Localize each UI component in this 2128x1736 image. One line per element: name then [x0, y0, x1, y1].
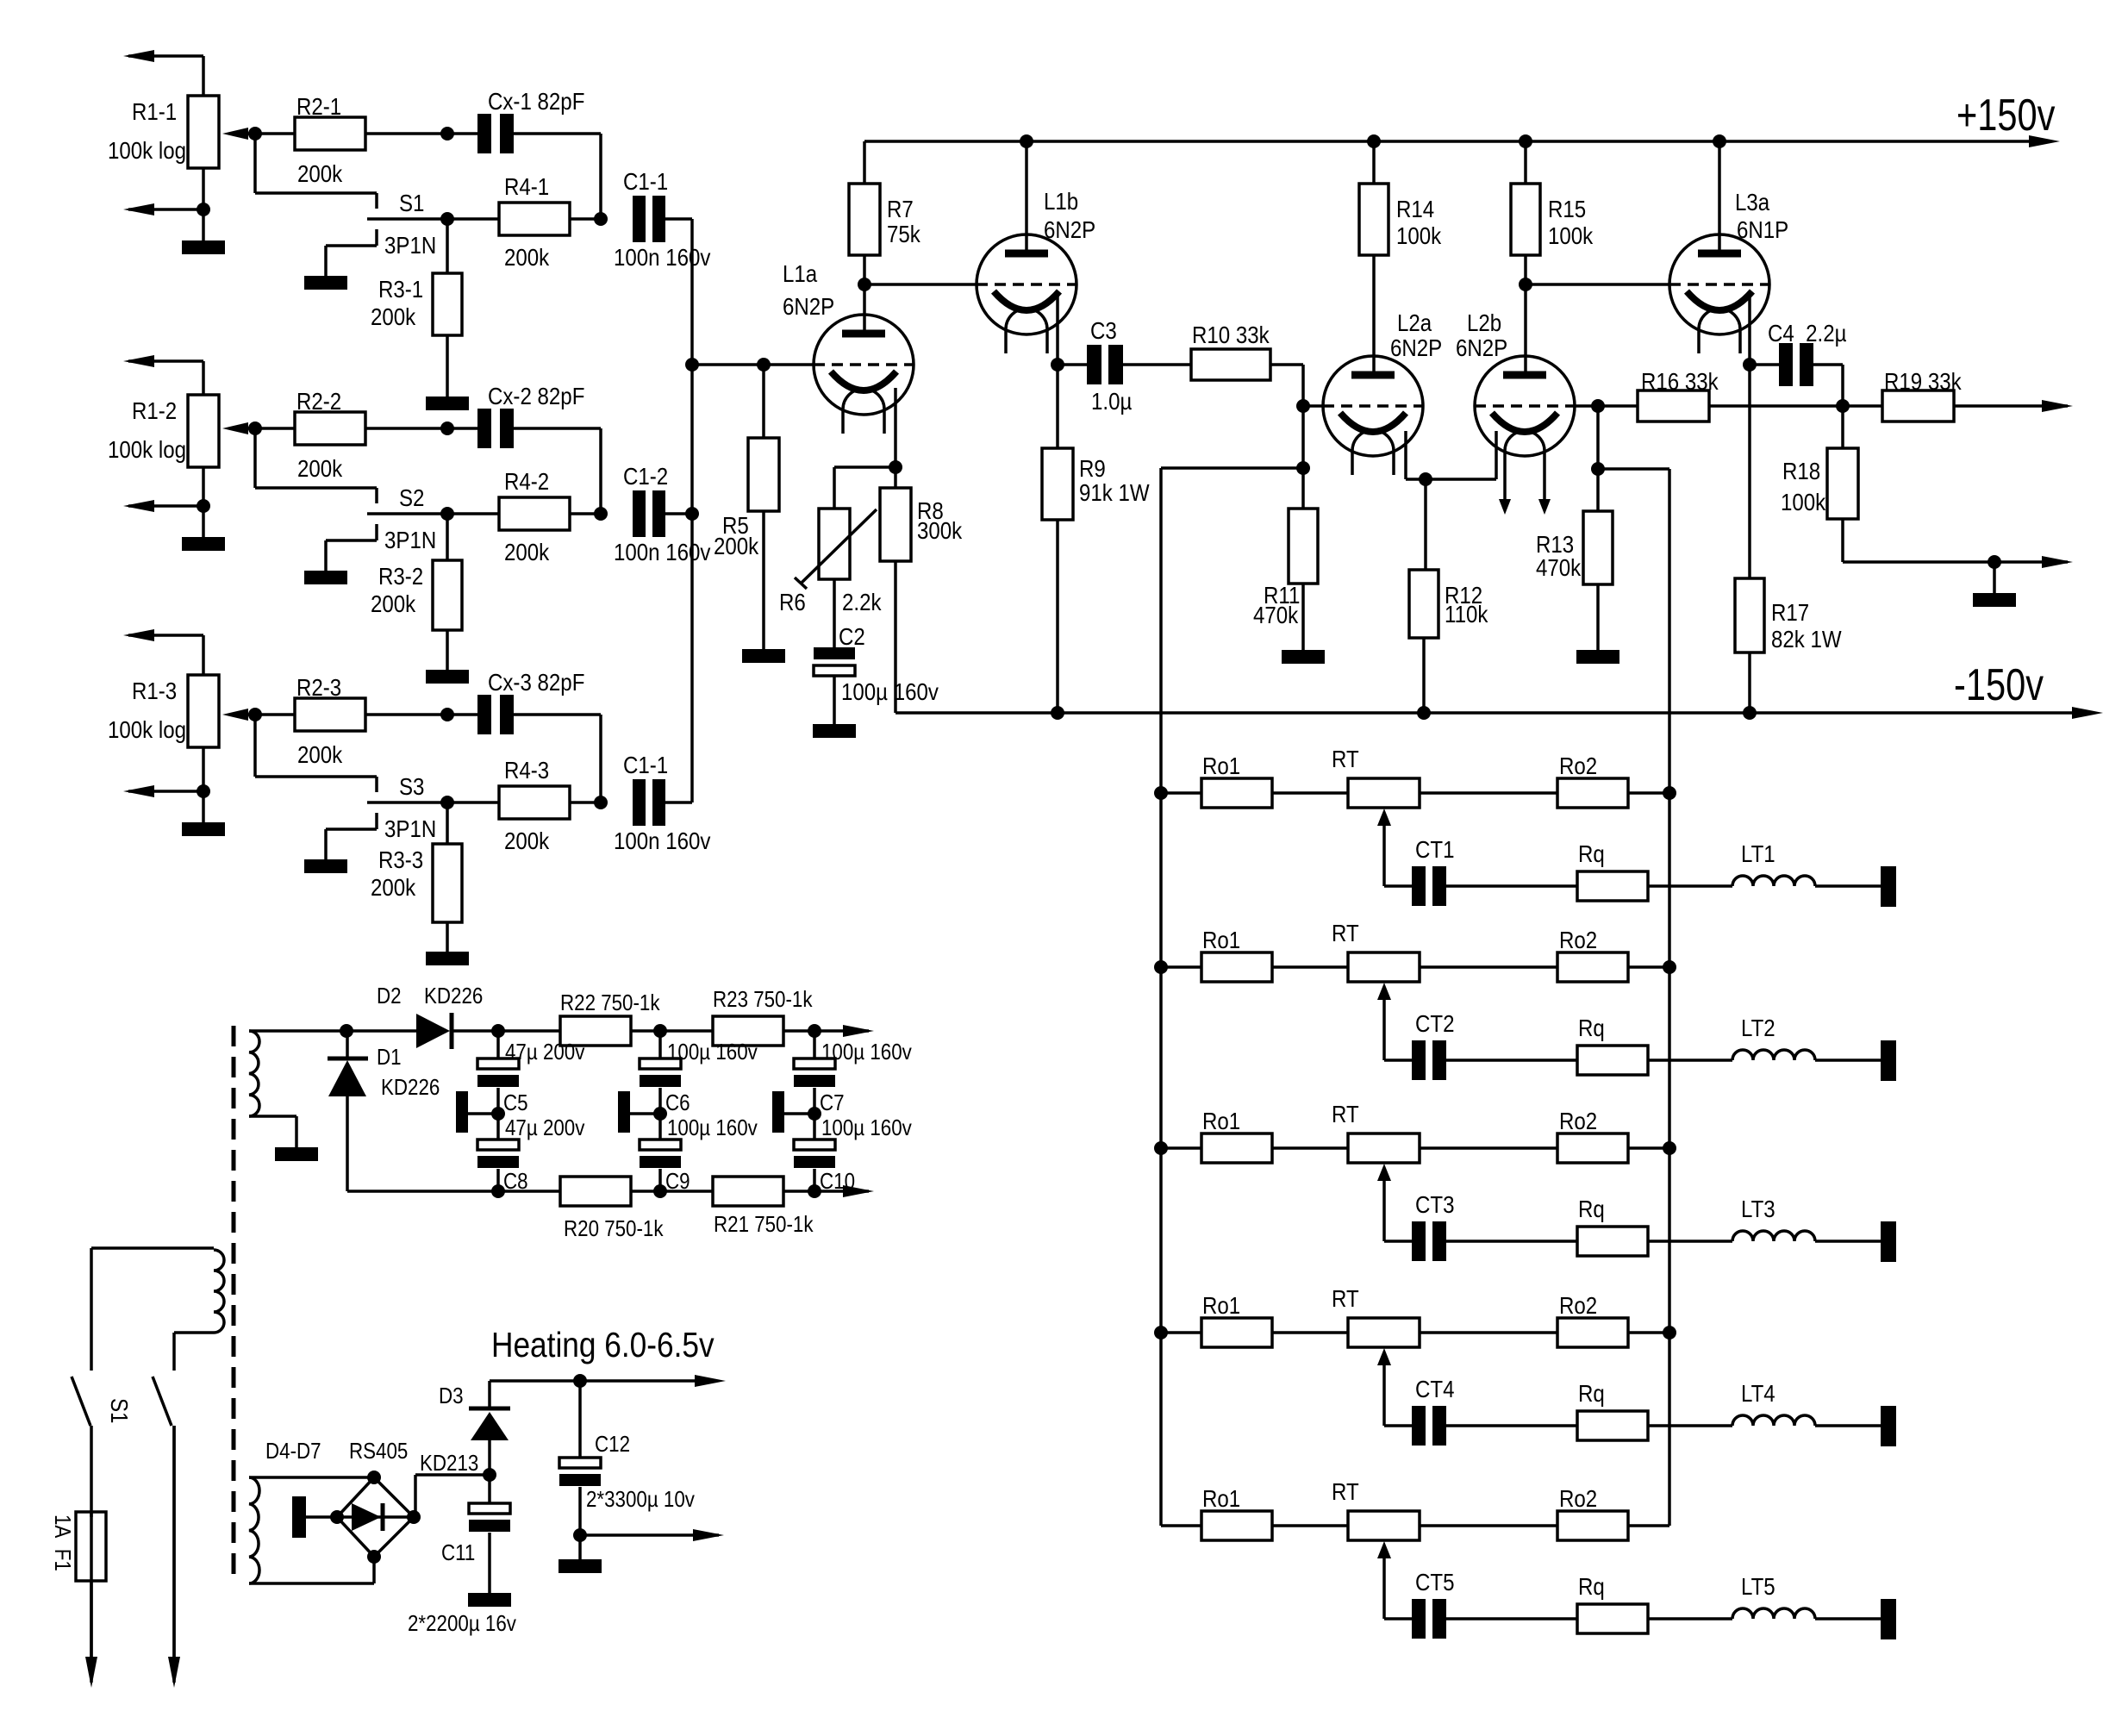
wire L2a cathode lead — [1406, 431, 1426, 479]
node mid C7/C10 — [808, 1107, 821, 1121]
wire C10 to rail — [813, 1169, 816, 1191]
resistor Ro1 row5 — [1201, 1484, 1272, 1540]
svg-text:L2b: L2b — [1467, 309, 1501, 336]
wire bridge to D3 — [414, 1451, 490, 1517]
wire C6 to mid — [658, 1088, 662, 1140]
svg-text:R1-3: R1-3 — [132, 677, 177, 704]
svg-text:100k log: 100k log — [108, 136, 186, 164]
svg-text:S2: S2 — [399, 484, 424, 511]
node bus left row4 — [1154, 1326, 1168, 1339]
triode L1a — [783, 259, 914, 434]
node R12 rail — [1417, 706, 1431, 720]
node mid C5/C8 — [491, 1107, 505, 1121]
wire Ro1 to RT row2 — [1272, 965, 1348, 969]
svg-text:CT3: CT3 — [1415, 1190, 1454, 1218]
svg-text:110k: 110k — [1445, 600, 1488, 628]
svg-text:R20 750-1k: R20 750-1k — [564, 1216, 664, 1241]
wire LT5 to terminal — [1815, 1617, 1881, 1620]
wire node to Cx-2 — [447, 427, 477, 430]
resistor R12 — [1409, 479, 1488, 638]
capacitor Cx-1 — [477, 87, 584, 153]
capacitor C5 — [477, 1040, 585, 1115]
wiper arrow RT row5 — [1377, 1541, 1391, 1619]
wire wiper to CT2 — [1384, 1058, 1412, 1062]
triode L3a — [1669, 188, 1788, 353]
svg-text:CT5: CT5 — [1415, 1568, 1454, 1595]
svg-text:L1a: L1a — [783, 259, 818, 287]
inductor LT1 — [1732, 840, 1815, 886]
ground R3-2 — [426, 670, 469, 684]
wire Ro1 to RT row5 — [1272, 1524, 1348, 1527]
node L3a anode rail — [1713, 134, 1726, 148]
wire to C3 — [1058, 363, 1088, 366]
wire R21 to node — [783, 1190, 843, 1193]
node L2b anode — [1519, 278, 1532, 291]
svg-text:Ro1: Ro1 — [1202, 1291, 1240, 1319]
svg-text:LT3: LT3 — [1741, 1195, 1775, 1222]
svg-text:Ro1: Ro1 — [1202, 752, 1240, 779]
tone bus left — [1159, 468, 1163, 1526]
wire wiper to CT4 — [1384, 1424, 1412, 1427]
svg-text:CT4: CT4 — [1415, 1375, 1454, 1402]
ground R11 — [1282, 650, 1325, 664]
wire RT to Ro2 row2 — [1420, 965, 1557, 969]
svg-text:RT: RT — [1332, 1477, 1359, 1505]
wiper arrow RT row4 — [1377, 1348, 1391, 1426]
node C10 bottom — [808, 1184, 821, 1198]
svg-text:200k: 200k — [371, 303, 416, 330]
wire switch feed ch2 — [255, 428, 377, 488]
svg-text:2*3300µ 10v: 2*3300µ 10v — [586, 1487, 696, 1512]
resistor Rq row2 — [1577, 1014, 1648, 1075]
ground pot ch3 — [182, 791, 225, 836]
svg-text:1.0µ: 1.0µ — [1091, 387, 1132, 415]
node L2a grid — [1296, 399, 1310, 413]
node D1 anode — [340, 1024, 353, 1038]
terminal LT1 — [1881, 866, 1896, 907]
svg-text:1A F1: 1A F1 — [50, 1514, 75, 1571]
node bus ch2 — [685, 507, 699, 521]
heater return arrow — [580, 1529, 724, 1541]
wire wiper to CT3 — [1384, 1240, 1412, 1243]
svg-text:3P1N: 3P1N — [384, 815, 436, 842]
wire Ro1 to RT row1 — [1272, 791, 1348, 795]
svg-text:200k: 200k — [504, 827, 550, 854]
svg-text:75k: 75k — [887, 220, 921, 247]
tone bus right — [1668, 469, 1671, 1526]
svg-text:200k: 200k — [504, 538, 550, 565]
svg-text:LT4: LT4 — [1741, 1379, 1775, 1407]
resistor R11 — [1253, 509, 1318, 628]
svg-text:C11: C11 — [441, 1540, 475, 1565]
potentiometer R1-2 — [108, 395, 255, 467]
wire L1a cathode lead — [894, 388, 897, 467]
svg-text:100k log: 100k log — [108, 435, 186, 463]
resistor R4-2 — [499, 467, 570, 565]
ground pot ch2 — [182, 506, 225, 551]
svg-text:100n 160v: 100n 160v — [614, 538, 710, 565]
svg-text:R17: R17 — [1771, 598, 1809, 626]
input arrow top ch3 — [123, 629, 203, 641]
inductor LT4 — [1732, 1379, 1815, 1426]
wire pot R1-1 bottom — [202, 168, 205, 211]
wire R5 to ground — [762, 511, 765, 649]
svg-text:100n 160v: 100n 160v — [614, 243, 710, 271]
node A ch2 — [440, 422, 454, 435]
transformer HV secondary — [249, 1031, 346, 1116]
svg-text:2.2k: 2.2k — [842, 588, 882, 615]
node C3 junction — [1051, 358, 1064, 372]
potentiometer RT row4 — [1332, 1284, 1420, 1347]
wire Cx-2 to C1 node — [514, 428, 601, 514]
heating rail — [490, 1375, 726, 1387]
wire R20 to node — [631, 1190, 713, 1193]
svg-text:Ro1: Ro1 — [1202, 926, 1240, 953]
resistor R6 trimmer — [779, 509, 882, 615]
node output2 ground — [1988, 555, 2001, 569]
svg-text:C12: C12 — [595, 1432, 630, 1457]
capacitor C6 — [640, 1040, 758, 1115]
bridge rectifier D4-D7 RS405 — [265, 1439, 421, 1564]
node R15 rail — [1519, 134, 1532, 148]
input arrow bottom ch3 — [123, 785, 203, 797]
terminal LT2 — [1881, 1040, 1896, 1081]
svg-text:100µ 160v: 100µ 160v — [821, 1115, 913, 1140]
node L1b anode rail — [1020, 134, 1033, 148]
node bus grid feed — [685, 358, 699, 372]
node bus left row1 — [1154, 786, 1168, 800]
wire R22 to node — [631, 1029, 713, 1033]
svg-text:R3-1: R3-1 — [378, 275, 423, 303]
wire Ro2 to bus row2 — [1628, 965, 1669, 969]
svg-text:Ro2: Ro2 — [1559, 1484, 1597, 1512]
wiper arrow RT row1 — [1377, 809, 1391, 886]
svg-text:CT1: CT1 — [1415, 835, 1454, 863]
node wiper ch2 — [248, 422, 262, 435]
resistor R4-3 — [499, 756, 570, 854]
wire Ro1 to RT row4 — [1272, 1331, 1348, 1334]
wire C8 to rail — [496, 1169, 500, 1191]
svg-text:L1b: L1b — [1044, 187, 1078, 215]
wire C1 to bus ch3 — [665, 801, 692, 804]
node C ch3 — [594, 796, 608, 809]
resistor Rq row4 — [1577, 1379, 1648, 1440]
svg-text:470k: 470k — [1253, 601, 1299, 628]
node mid C6/C9 — [653, 1107, 667, 1121]
wire L3a anode to +150v — [1718, 141, 1721, 253]
wire C5 to mid — [496, 1088, 500, 1140]
wire C1 output bus — [690, 219, 694, 802]
svg-text:Ro2: Ro2 — [1559, 1291, 1597, 1319]
potentiometer RT row1 — [1332, 745, 1420, 808]
heating label — [491, 1326, 715, 1365]
svg-text:R19 33k: R19 33k — [1884, 367, 1963, 395]
wire to right bus — [1598, 467, 1669, 471]
wire node to L3a grid — [1526, 283, 1669, 286]
wire CT3 to Rq — [1446, 1240, 1577, 1243]
svg-text:R2-1: R2-1 — [296, 92, 341, 120]
wire R9 to -150v rail — [1056, 520, 1059, 713]
capacitor CT5 — [1412, 1568, 1454, 1639]
wire L2b anode lead — [1524, 284, 1527, 375]
resistor R23 — [713, 987, 813, 1046]
ground R5 — [742, 649, 785, 663]
wire pot R1-1 top — [202, 56, 205, 96]
wire LT3 to terminal — [1815, 1240, 1881, 1243]
wire to left bus — [1161, 466, 1303, 470]
wire bus to Ro1 row4 — [1161, 1331, 1201, 1334]
svg-text:R1-1: R1-1 — [132, 97, 177, 125]
wire rail to C5 — [496, 1031, 500, 1058]
svg-text:200k: 200k — [504, 243, 550, 271]
wire pot R1-3 bottom — [202, 747, 205, 793]
svg-text:200k: 200k — [297, 454, 343, 482]
terminal bar bridge — [292, 1496, 337, 1538]
wire CT2 to Rq — [1446, 1058, 1577, 1062]
svg-text:91k 1W: 91k 1W — [1079, 478, 1150, 506]
resistor R15 — [1511, 141, 1594, 255]
terminal LT4 — [1881, 1406, 1896, 1446]
svg-text:100µ 160v: 100µ 160v — [821, 1040, 913, 1065]
svg-text:C1-2: C1-2 — [623, 462, 668, 490]
capacitor C8 — [477, 1115, 585, 1194]
wire Rq to LT3 — [1648, 1240, 1732, 1243]
svg-text:R16 33k: R16 33k — [1641, 367, 1719, 395]
wire to C4 — [1750, 363, 1779, 366]
node bus right row3 — [1663, 1141, 1676, 1155]
wire RT to Ro2 row3 — [1420, 1146, 1557, 1150]
inductor LT2 — [1732, 1014, 1815, 1060]
wire Rq to LT5 — [1648, 1617, 1732, 1620]
svg-text:Ro1: Ro1 — [1202, 1107, 1240, 1134]
svg-text:3P1N: 3P1N — [384, 526, 436, 553]
wire grid node down — [1596, 406, 1600, 511]
PSU + output arrow — [843, 1025, 874, 1037]
terminal bar C6/C9 — [618, 1091, 660, 1133]
wire Rq to LT2 — [1648, 1058, 1732, 1062]
svg-text:200k: 200k — [714, 532, 759, 559]
resistor R13 — [1536, 511, 1613, 584]
wire R18 to output2 — [1843, 519, 1994, 562]
node R9 rail — [1051, 706, 1064, 720]
svg-text:C8: C8 — [503, 1169, 528, 1194]
node B ch1 — [440, 212, 454, 226]
input arrow bottom ch2 — [123, 500, 203, 512]
wire bus to Ro1 row1 — [1161, 791, 1201, 795]
wire RT to Ro2 row4 — [1420, 1331, 1557, 1334]
svg-text:R4-1: R4-1 — [504, 172, 549, 200]
resistor Ro2 row3 — [1557, 1107, 1628, 1163]
svg-text:Ro2: Ro2 — [1559, 1107, 1597, 1134]
svg-text:KD226: KD226 — [381, 1075, 440, 1100]
svg-text:C1-1: C1-1 — [623, 167, 668, 195]
svg-text:Ro2: Ro2 — [1559, 926, 1597, 953]
svg-text:47µ 200v: 47µ 200v — [505, 1040, 585, 1065]
svg-text:+150v: +150v — [1956, 90, 2056, 141]
node B ch3 — [440, 796, 454, 809]
svg-text:R3-3: R3-3 — [378, 846, 423, 873]
input arrow top ch2 — [123, 355, 203, 367]
resistor R16 — [1598, 367, 1719, 422]
capacitor C4 — [1768, 319, 1847, 386]
capacitor Cx-3 — [477, 668, 584, 734]
wire C3 to R10 — [1122, 363, 1191, 366]
resistor Ro1 row2 — [1201, 926, 1272, 982]
wire R23 to node — [783, 1029, 843, 1033]
ground R3-1 — [426, 397, 469, 410]
switch S1 pole2 wire top — [172, 1333, 176, 1371]
diode D1 KD226 — [328, 1031, 440, 1191]
node C12 top — [573, 1374, 587, 1388]
ground C11 — [468, 1593, 511, 1607]
wire LT1 to terminal — [1815, 884, 1881, 888]
wire R7 to node — [863, 255, 866, 284]
wire cathode to R6 — [834, 467, 896, 509]
resistor R20 — [560, 1177, 664, 1241]
wire C12 down — [578, 1487, 582, 1559]
output arrow R19 — [1954, 400, 2073, 412]
wire Rq to LT1 — [1648, 884, 1732, 888]
svg-text:C1-1: C1-1 — [623, 751, 668, 778]
svg-text:LT5: LT5 — [1741, 1572, 1775, 1600]
wire node to R4-2 — [447, 512, 499, 515]
wire Ro2 to bus row4 — [1628, 1331, 1669, 1334]
wire C11 to ground — [488, 1533, 491, 1593]
wire R13 to ground — [1596, 584, 1600, 650]
ground output2 — [1973, 562, 2016, 607]
svg-text:100k log: 100k log — [108, 715, 186, 743]
node heater return — [573, 1528, 587, 1542]
wire cathode link — [1426, 478, 1496, 481]
svg-text:RT: RT — [1332, 745, 1359, 772]
-150v rail — [896, 659, 2103, 719]
node wiper ch1 — [248, 127, 262, 141]
svg-text:C10: C10 — [820, 1169, 855, 1194]
svg-text:R23 750-1k: R23 750-1k — [713, 987, 813, 1012]
node C5 top — [491, 1024, 505, 1038]
wire node B down ch2 — [446, 514, 449, 560]
capacitor C7 — [794, 1040, 913, 1115]
node C8 bottom — [491, 1184, 505, 1198]
svg-text:Cx-2 82pF: Cx-2 82pF — [488, 382, 584, 409]
node bus right row2 — [1663, 960, 1676, 974]
svg-text:100µ 160v: 100µ 160v — [667, 1040, 758, 1065]
ground R13 — [1576, 650, 1619, 664]
capacitor C11 — [441, 1475, 510, 1565]
wire node to R4-3 — [447, 801, 499, 804]
wire Rq to LT4 — [1648, 1424, 1732, 1427]
svg-text:200k: 200k — [371, 873, 416, 901]
resistor Ro2 row4 — [1557, 1291, 1628, 1347]
svg-text:Rq: Rq — [1578, 1379, 1605, 1407]
node feedback right — [1591, 462, 1605, 476]
node C9 bottom — [653, 1184, 667, 1198]
transformer primary — [91, 1248, 224, 1333]
inductor LT3 — [1732, 1195, 1815, 1241]
svg-text:Cx-1 82pF: Cx-1 82pF — [488, 87, 584, 115]
wire R4-2 to C1 node — [570, 512, 601, 515]
capacitor C3 — [1087, 316, 1132, 415]
wire wiper to CT1 — [1384, 884, 1412, 888]
resistor Ro1 row3 — [1201, 1107, 1272, 1163]
wire node to L1b grid — [864, 283, 977, 286]
wire bus to Ro1 row3 — [1161, 1146, 1201, 1150]
ground pot ch1 — [182, 209, 225, 254]
svg-text:KD213: KD213 — [420, 1451, 478, 1476]
svg-text:Rq: Rq — [1578, 1572, 1605, 1600]
resistor Rq row1 — [1577, 840, 1648, 901]
node L2b grid — [1591, 399, 1605, 413]
wire bus to L1a grid — [692, 363, 814, 366]
wiper arrow RT row3 — [1377, 1164, 1391, 1241]
potentiometer RT row2 — [1332, 919, 1420, 982]
resistor R3-2 — [371, 560, 462, 630]
node R17 rail — [1743, 706, 1757, 720]
wire grid to L2a — [1303, 404, 1323, 408]
wire bus to Ro1 row2 — [1161, 965, 1201, 969]
transformer heater secondary — [249, 1477, 374, 1583]
resistor R2-1 — [295, 92, 365, 187]
wire C2 to ground — [833, 675, 836, 724]
terminal bar C5/C8 — [456, 1091, 498, 1133]
node A ch3 — [440, 708, 454, 721]
resistor R10 — [1191, 321, 1270, 380]
node C ch1 — [594, 212, 608, 226]
mains arrow pole2 — [168, 1426, 180, 1688]
wire C4 to output node — [1813, 365, 1843, 406]
wire node to Cx-3 — [447, 713, 477, 716]
triode L2b — [1456, 309, 1575, 515]
svg-text:200k: 200k — [297, 740, 343, 768]
wire C1 to bus ch2 — [665, 512, 692, 515]
svg-text:200k: 200k — [297, 159, 343, 187]
input arrow bottom ch1 — [123, 203, 203, 215]
fuse F1 1A — [50, 1512, 106, 1581]
capacitor CT3 — [1412, 1190, 1454, 1261]
svg-text:6N2P: 6N2P — [1456, 334, 1507, 361]
wire R17 to -150v rail — [1748, 653, 1751, 713]
resistor R3-1 — [371, 273, 462, 335]
resistor R21 — [713, 1177, 814, 1237]
capacitor C1-1 ch1 — [614, 167, 710, 271]
capacitor C2 — [814, 622, 939, 705]
wire HV winding bottom — [249, 1116, 296, 1147]
+150v rail — [864, 90, 2060, 147]
svg-text:R3-2: R3-2 — [378, 562, 423, 590]
PSU - output arrow — [843, 1185, 874, 1197]
wire Ro1 to RT row3 — [1272, 1146, 1348, 1150]
svg-text:S1: S1 — [106, 1398, 134, 1423]
node R14 rail — [1367, 134, 1381, 148]
svg-text:C5: C5 — [503, 1090, 528, 1115]
wire L1b anode to +150v — [1025, 141, 1028, 253]
svg-text:Heating 6.0-6.5v: Heating 6.0-6.5v — [491, 1326, 715, 1365]
svg-text:L2a: L2a — [1397, 309, 1432, 336]
wire CT1 to Rq — [1446, 884, 1577, 888]
svg-text:100k: 100k — [1548, 222, 1594, 249]
wire CT5 to Rq — [1446, 1617, 1577, 1620]
wire Cx-3 to C1 node — [514, 715, 601, 802]
wire rail to C7 — [813, 1031, 816, 1058]
capacitor C1-2 ch2 — [614, 462, 710, 565]
svg-text:D2: D2 — [377, 984, 402, 1009]
wire L1a anode lead — [863, 284, 866, 334]
wire wiper to CT5 — [1384, 1617, 1412, 1620]
svg-text:Rq: Rq — [1578, 1014, 1605, 1041]
wire L3a cathode lead — [1748, 295, 1751, 578]
wire R15 down — [1524, 255, 1527, 284]
svg-text:Ro1: Ro1 — [1202, 1484, 1240, 1512]
